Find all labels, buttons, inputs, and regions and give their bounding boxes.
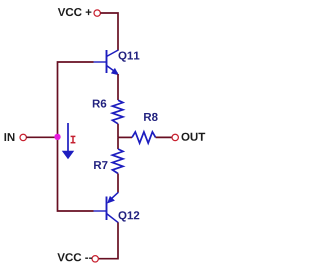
transistor Q11 [94, 50, 120, 75]
transistor Q12 [94, 192, 119, 222]
wire R6 to node [117, 124, 119, 138]
label R8 [144, 113, 158, 121]
label Q11 [119, 52, 140, 62]
wire Q11 emitter to R6 [117, 74, 119, 100]
label R6 [93, 100, 107, 108]
label I [71, 136, 76, 142]
terminal IN [20, 134, 26, 140]
wire VCC+ to Q11 collector [100, 13, 118, 51]
resistor R6 [112, 100, 123, 124]
terminal OUT [172, 134, 178, 140]
wire R8 to OUT [156, 136, 172, 138]
wire Q12 collector to VCC- [98, 223, 118, 259]
wire base rail upper (to Q11 base) [58, 62, 94, 137]
label OUT [182, 133, 206, 141]
terminal VCC+ [94, 10, 100, 16]
current arrow I [62, 123, 74, 159]
wire IN to junction [26, 136, 57, 138]
label R7 [94, 161, 107, 169]
node junction R6/R7/R8 [118, 136, 132, 138]
junction dot on input rail [54, 134, 60, 140]
wire R7 to Q12 emitter [117, 174, 119, 193]
wire base rail lower (to Q12 base) [58, 138, 94, 212]
label VCC- [57, 253, 92, 261]
resistor R8 [132, 132, 156, 143]
label Q12 [119, 211, 140, 221]
resistor R7 [112, 149, 123, 174]
wire node to R7 [117, 137, 119, 149]
terminal VCC- [92, 256, 98, 262]
label VCC+ [58, 8, 92, 16]
label IN [5, 133, 15, 141]
